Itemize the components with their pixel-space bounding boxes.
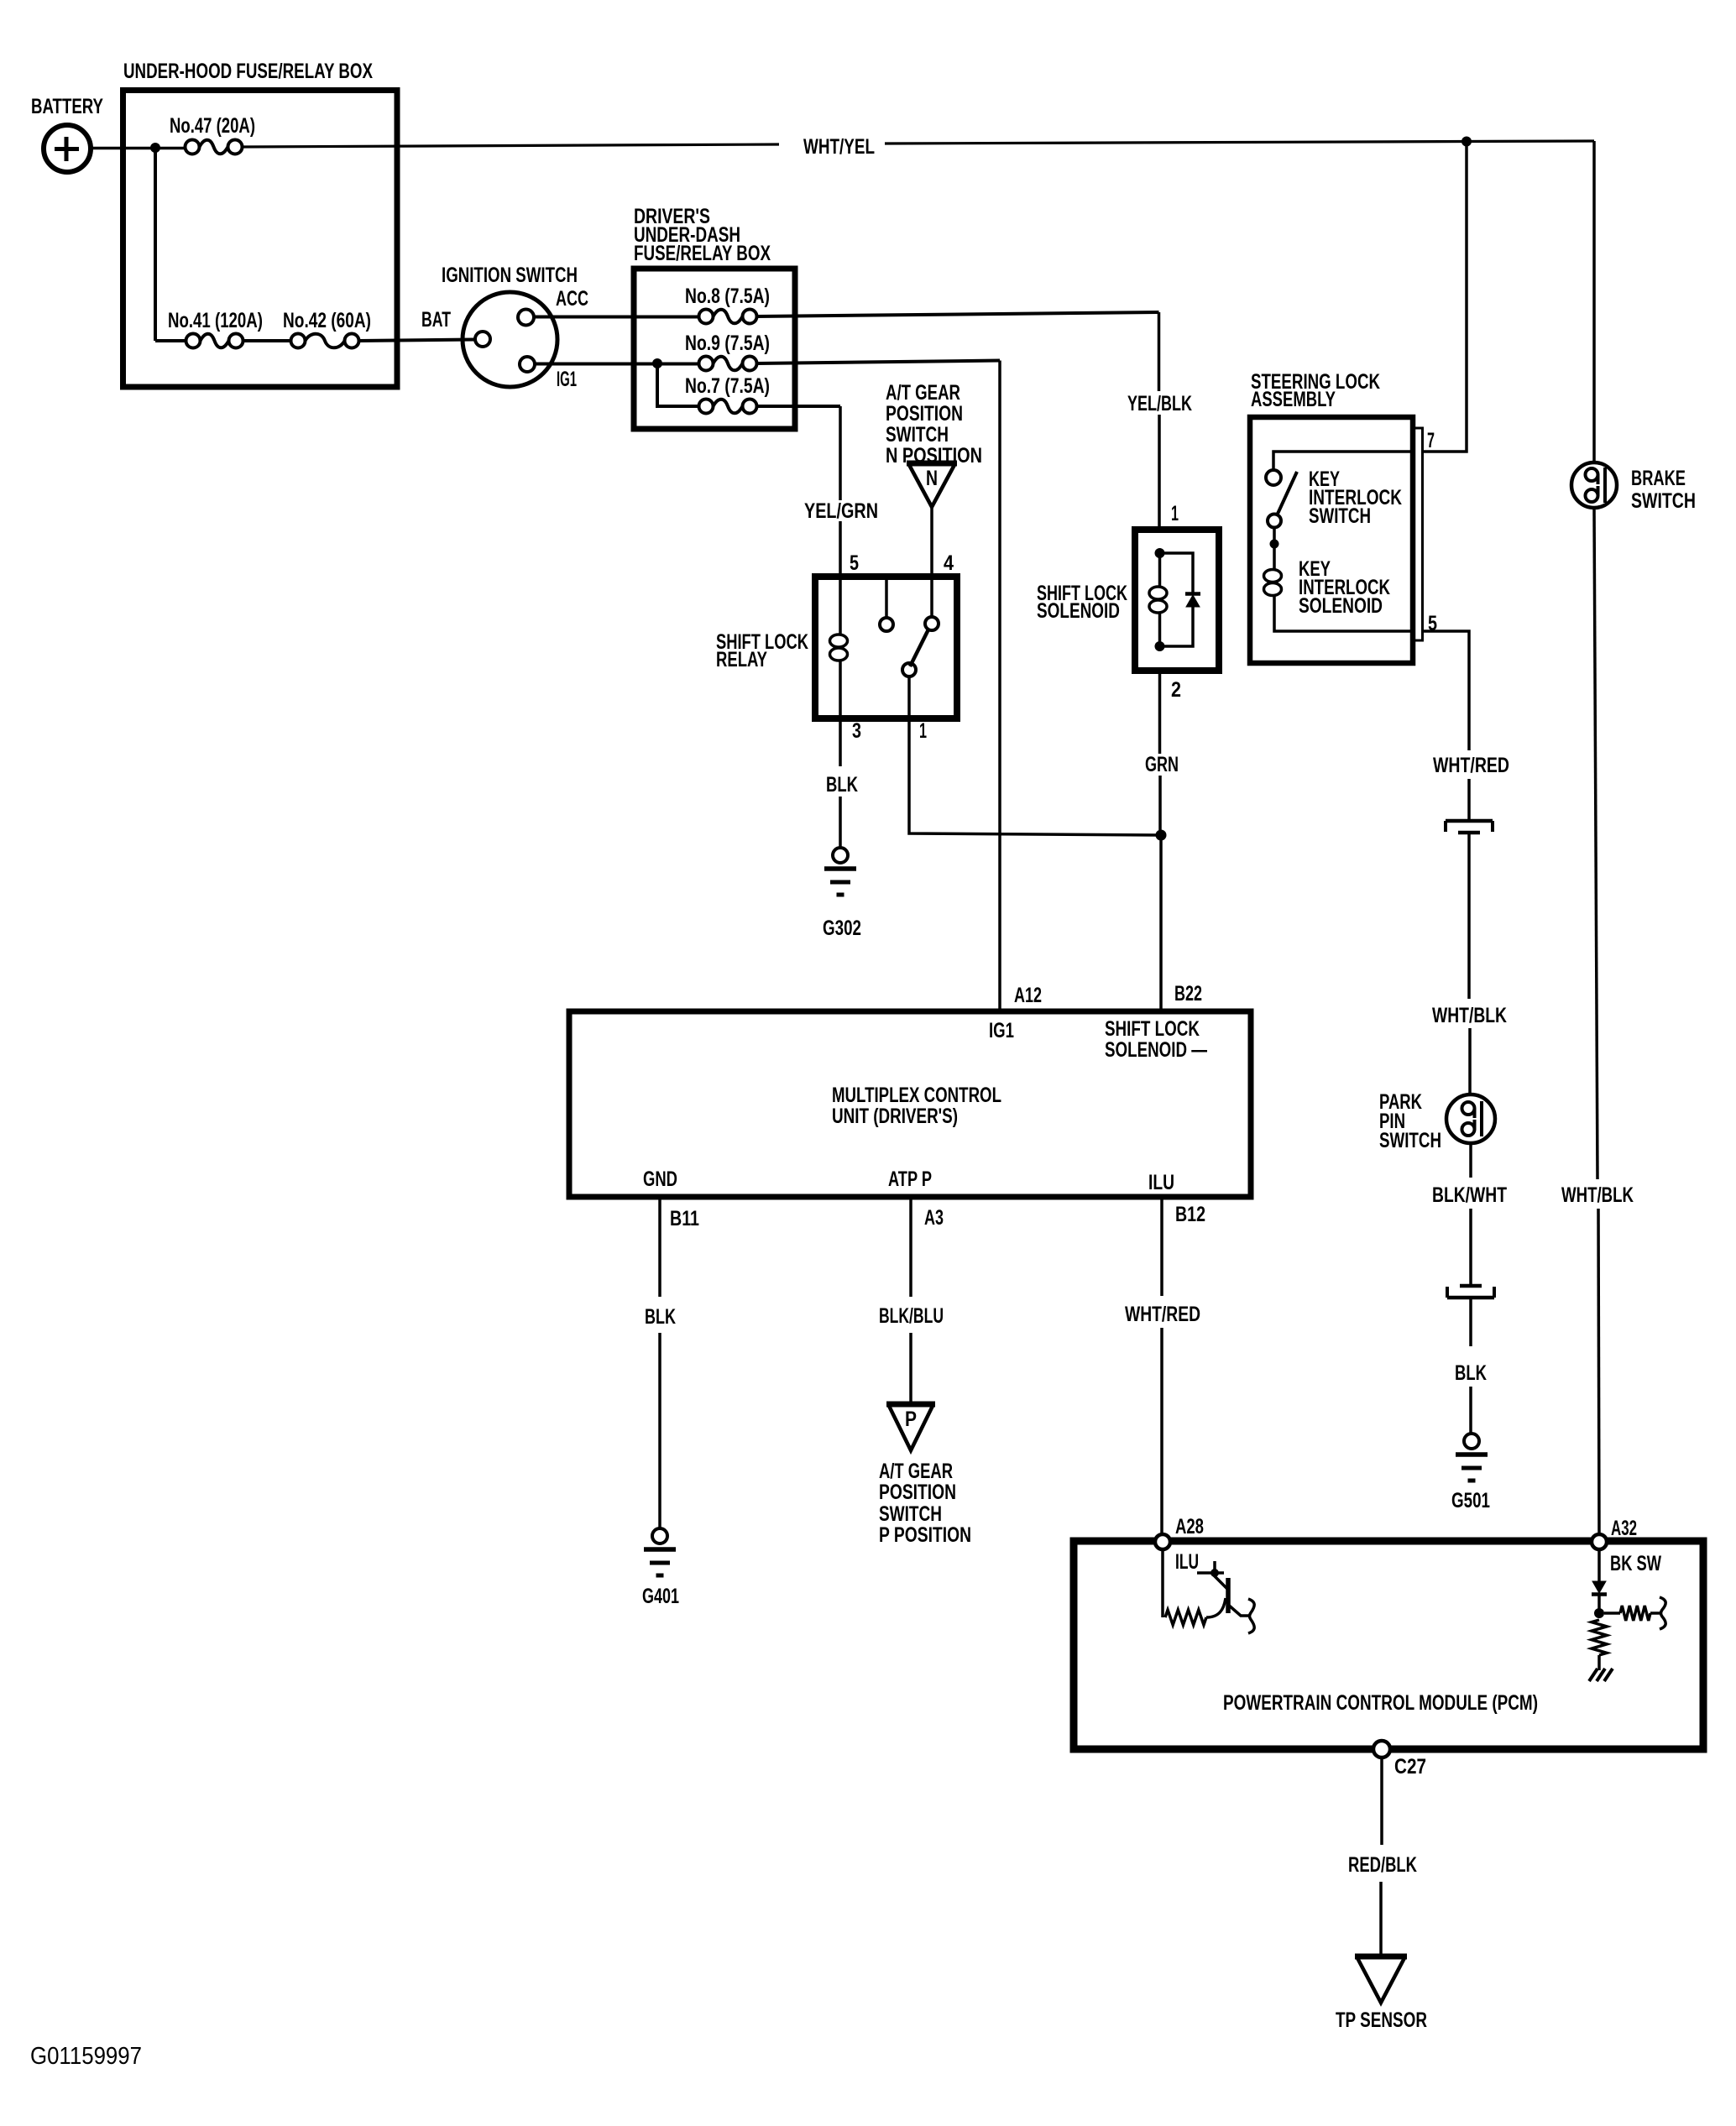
relay switch blade [910, 629, 928, 666]
svg-text:UNIT (DRIVER'S): UNIT (DRIVER'S) [832, 1105, 958, 1128]
PCM brake switch input circuit [1597, 1549, 1601, 1581]
key interlock switch [1273, 452, 1413, 470]
svg-text:WHT/RED: WHT/RED [1433, 754, 1509, 777]
wire pin5 WHT/RED [1423, 631, 1470, 750]
svg-text:B11: B11 [670, 1207, 699, 1230]
svg-text:A3: A3 [924, 1206, 944, 1230]
wire junction down [154, 148, 157, 341]
steering lock connector strip [1413, 428, 1423, 640]
battery [44, 125, 91, 172]
svg-text:SWITCH: SWITCH [886, 423, 949, 447]
svg-text:IGNITION SWITCH: IGNITION SWITCH [442, 264, 578, 287]
relay pin4 contact [930, 577, 933, 617]
ground G401 [652, 1528, 667, 1544]
svg-text:No.9 (7.5A): No.9 (7.5A) [685, 332, 770, 355]
node IG1 branch [652, 358, 662, 368]
fuse No.42 (60A) [291, 334, 306, 348]
wire to park pin switch WHT/BLK [1467, 833, 1471, 999]
svg-text:No.47 (20A): No.47 (20A) [170, 114, 255, 138]
svg-text:No.41 (120A): No.41 (120A) [168, 309, 263, 332]
svg-text:3: 3 [852, 719, 861, 743]
svg-text:SWITCH: SWITCH [879, 1502, 942, 1526]
svg-text:WHT/RED: WHT/RED [1125, 1303, 1200, 1326]
svg-text:TP SENSOR: TP SENSOR [1336, 2008, 1427, 2032]
resistor R2 [1604, 1611, 1620, 1615]
svg-text:P: P [905, 1408, 917, 1431]
svg-text:SWITCH: SWITCH [1379, 1129, 1441, 1152]
svg-text:No.8 (7.5A): No.8 (7.5A) [685, 285, 770, 308]
svg-text:MULTIPLEX CONTROL: MULTIPLEX CONTROL [832, 1084, 1001, 1107]
svg-text:BLK: BLK [1455, 1361, 1487, 1385]
svg-text:IG1: IG1 [989, 1019, 1014, 1042]
wire solenoid pin2 GRN [1158, 671, 1162, 754]
shift lock solenoid [1135, 530, 1219, 671]
wire A12 vertical [998, 361, 1001, 1012]
relay fixed contact stub [885, 580, 888, 618]
svg-text:No.42 (60A): No.42 (60A) [283, 309, 371, 332]
svg-text:A/T GEAR: A/T GEAR [879, 1460, 953, 1483]
wire fuse42 to BAT [359, 340, 475, 342]
svg-text:4: 4 [944, 551, 954, 575]
wire brake switch down WHT/BLK [1594, 508, 1597, 1179]
ignition switch [463, 292, 557, 387]
wire ACC to fuse box [534, 316, 699, 319]
svg-text:BK SW: BK SW [1610, 1552, 1661, 1575]
under-hood fuse/relay box [123, 91, 398, 388]
wire fuse9 to A12 line [757, 361, 1001, 364]
key interlock solenoid [1273, 548, 1276, 570]
wire BLK to G501 [1469, 1298, 1472, 1346]
svg-text:ATP P: ATP P [888, 1167, 932, 1191]
relay coil pin5-pin3 [839, 577, 842, 624]
svg-text:A/T GEAR: A/T GEAR [886, 381, 960, 405]
svg-text:SOLENOID —: SOLENOID — [1105, 1038, 1207, 1062]
driver's under-dash fuse/relay box [634, 269, 795, 429]
PCM ILU input circuit [1161, 1549, 1164, 1617]
svg-text:ILU: ILU [1148, 1171, 1174, 1194]
pin C27 [1373, 1741, 1390, 1758]
svg-text:G501: G501 [1451, 1489, 1490, 1512]
svg-text:G401: G401 [642, 1585, 679, 1608]
A/T gear position switch P position [886, 1402, 935, 1408]
fuse No.47 (20A) [186, 140, 200, 154]
wire YEL/BLK down to solenoid [1158, 312, 1161, 391]
wire fuse7 to YEL/GRN [757, 405, 841, 408]
diode D1 [1592, 1581, 1606, 1593]
svg-text:GRN: GRN [1145, 753, 1179, 776]
wire park pin switch down BLK/WHT [1469, 1143, 1472, 1178]
node BK SW divider [1594, 1608, 1604, 1618]
transistor Q1 [1226, 1578, 1231, 1613]
svg-text:IG1: IG1 [557, 368, 577, 391]
svg-text:2: 2 [1171, 678, 1181, 702]
svg-text:WHT/YEL: WHT/YEL [803, 135, 875, 159]
svg-text:N: N [926, 467, 938, 490]
svg-text:POWERTRAIN CONTROL MODULE (PCM: POWERTRAIN CONTROL MODULE (PCM) [1223, 1691, 1538, 1715]
svg-text:BLK: BLK [645, 1305, 676, 1329]
svg-text:GND: GND [643, 1167, 677, 1191]
svg-text:WHT/BLK: WHT/BLK [1432, 1004, 1507, 1027]
svg-text:POSITION: POSITION [886, 402, 963, 426]
svg-text:ILU: ILU [1175, 1550, 1199, 1574]
svg-text:SOLENOID: SOLENOID [1037, 599, 1120, 623]
svg-text:A28: A28 [1175, 1515, 1204, 1538]
wire WHT/YEL to brake switch [1592, 141, 1596, 462]
svg-text:C27: C27 [1394, 1755, 1426, 1779]
wire GND B11 BLK [658, 1197, 661, 1297]
pin A32 [1592, 1534, 1607, 1549]
svg-text:7: 7 [1427, 429, 1435, 452]
fuse No.8 (7.5A) [699, 310, 714, 324]
steering lock assembly box [1250, 417, 1413, 663]
svg-text:5: 5 [850, 551, 859, 575]
svg-text:YEL/GRN: YEL/GRN [804, 499, 878, 523]
svg-text:BAT: BAT [421, 308, 451, 332]
svg-text:P POSITION: P POSITION [879, 1523, 971, 1547]
wire ILU B12 WHT/RED [1160, 1197, 1163, 1296]
node: battery feed junction [150, 143, 160, 153]
powertrain control module (PCM) box [1074, 1541, 1703, 1749]
wire ATP P A3 BLK/BLU [909, 1197, 912, 1297]
svg-text:BLK/WHT: BLK/WHT [1432, 1183, 1507, 1207]
svg-text:ACC: ACC [556, 287, 588, 311]
wire relay pin1 to GRN node [909, 676, 1161, 835]
chassis ground [1589, 1669, 1597, 1681]
wire C27 RED/BLK [1380, 1758, 1383, 1845]
resistor R3 [1592, 1620, 1607, 1655]
svg-text:G302: G302 [823, 917, 861, 940]
svg-text:YEL/BLK: YEL/BLK [1127, 392, 1192, 415]
svg-text:A32: A32 [1611, 1517, 1637, 1540]
wire fuse41-fuse42 [155, 339, 186, 342]
ground G302 [833, 848, 848, 863]
solenoid coil [1155, 548, 1165, 558]
svg-text:No.7 (7.5A): No.7 (7.5A) [685, 374, 770, 398]
node GRN / relay junction [1156, 830, 1167, 841]
IG1 terminal [520, 357, 535, 372]
pin A28 [1155, 1534, 1170, 1549]
svg-text:RED/BLK: RED/BLK [1348, 1853, 1417, 1877]
node WHT/YEL junction [1461, 137, 1472, 147]
wire GRN to B22 [1159, 840, 1163, 1011]
svg-text:UNDER-HOOD FUSE/RELAY BOX: UNDER-HOOD FUSE/RELAY BOX [123, 60, 373, 83]
multiplex control unit box [569, 1011, 1251, 1197]
brake switch [1571, 462, 1617, 508]
svg-text:RELAY: RELAY [716, 648, 767, 671]
connector (upper) [1446, 819, 1493, 823]
svg-text:POSITION: POSITION [879, 1481, 956, 1504]
relay moving contact [902, 663, 916, 676]
svg-text:1: 1 [919, 719, 927, 743]
svg-text:1: 1 [1171, 502, 1179, 525]
svg-text:SOLENOID: SOLENOID [1299, 594, 1383, 618]
wire IG1 to fuse box [535, 363, 699, 366]
wire WHT/YEL across top [243, 144, 780, 147]
BAT terminal [475, 332, 490, 347]
svg-text:BATTERY: BATTERY [31, 95, 103, 118]
svg-text:BRAKE: BRAKE [1631, 467, 1686, 490]
ACC terminal [518, 310, 534, 326]
svg-text:A12: A12 [1014, 984, 1042, 1007]
svg-text:B12: B12 [1175, 1203, 1205, 1226]
svg-text:BLK: BLK [826, 773, 858, 797]
svg-text:SWITCH: SWITCH [1631, 489, 1696, 513]
svg-text:FUSE/RELAY BOX: FUSE/RELAY BOX [634, 242, 771, 265]
wire WHT/YEL down to pin 7 [1423, 142, 1467, 452]
wire N switch to relay pin 4 [930, 507, 933, 577]
TP sensor [1355, 1954, 1407, 1960]
wire YEL/GRN down to relay [839, 406, 842, 500]
fuse No.7 (7.5A) [699, 400, 714, 414]
shift lock relay [815, 577, 957, 718]
fuse No.41 (120A) [186, 334, 201, 348]
svg-text:SHIFT LOCK: SHIFT LOCK [1105, 1017, 1200, 1041]
svg-text:G01159997: G01159997 [30, 2043, 142, 2070]
svg-text:ASSEMBLY: ASSEMBLY [1251, 388, 1336, 411]
ground G501 [1464, 1434, 1479, 1449]
park pin switch [1446, 1094, 1495, 1143]
wire relay pin3 BLK to G302 [839, 718, 842, 766]
solenoid diode [1160, 553, 1194, 593]
wire IG1 branch down to fuse 7 [657, 363, 699, 406]
svg-text:SWITCH: SWITCH [1309, 504, 1371, 528]
connector (lower) [1460, 1284, 1482, 1288]
svg-text:BLK/BLU: BLK/BLU [879, 1304, 944, 1328]
fuse No.9 (7.5A) [699, 357, 714, 371]
svg-text:B22: B22 [1174, 982, 1202, 1006]
svg-text:WHT/BLK: WHT/BLK [1561, 1183, 1634, 1207]
wire battery to fuse box [91, 147, 186, 150]
wire fuse8 to YEL/BLK [757, 312, 1159, 316]
